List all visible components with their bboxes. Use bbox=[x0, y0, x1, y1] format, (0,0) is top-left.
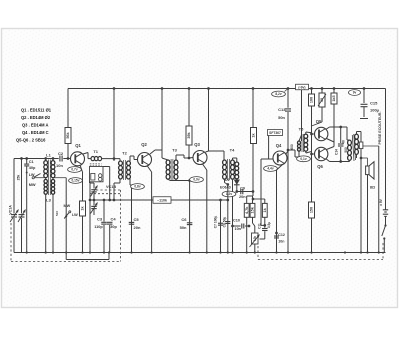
voltage oval 0.15v bbox=[69, 178, 83, 184]
svg-text:(-9v): (-9v) bbox=[298, 85, 305, 89]
svg-text:Q1: Q1 bbox=[75, 143, 81, 148]
svg-text:9v: 9v bbox=[353, 91, 357, 95]
svg-text:500: 500 bbox=[344, 147, 348, 153]
svg-text:Q6: Q6 bbox=[317, 164, 323, 169]
voltage oval 9v bbox=[349, 90, 361, 96]
svg-text:MW: MW bbox=[64, 204, 71, 208]
resistor R13 bbox=[311, 89, 313, 95]
wire T2 leads bbox=[119, 159, 121, 161]
svg-text:C3: C3 bbox=[97, 217, 103, 222]
svg-text:Q1 . ED1511 Ø1: Q1 . ED1511 Ø1 bbox=[21, 108, 52, 113]
wire bottom ground rail bbox=[14, 252, 386, 254]
svg-text:T4: T4 bbox=[230, 148, 235, 153]
svg-text:C5: C5 bbox=[134, 217, 140, 222]
wire T1 to osc bbox=[89, 182, 91, 183]
svg-text:150: 150 bbox=[310, 207, 314, 213]
wire Q3 collector bbox=[206, 151, 209, 152]
svg-text:C9: C9 bbox=[240, 186, 245, 190]
svg-text:VC1B: VC1B bbox=[106, 185, 116, 189]
svg-text:C10: C10 bbox=[233, 219, 240, 223]
svg-text:EO6AD: EO6AD bbox=[220, 185, 232, 189]
svg-text:110p: 110p bbox=[94, 225, 103, 229]
transistor type list bbox=[16, 108, 52, 143]
wire rail drop x208 bbox=[208, 89, 210, 152]
variable capacitor VC1A bbox=[11, 214, 17, 216]
voltage oval 0.1v bbox=[297, 156, 311, 162]
resistor 25k bbox=[21, 159, 23, 214]
wire Q3 emitter bbox=[203, 164, 207, 170]
boxed -9v label bbox=[296, 84, 309, 90]
wire top supply rail bbox=[68, 88, 386, 90]
svg-text:MW: MW bbox=[29, 182, 36, 187]
svg-text:510: 510 bbox=[55, 211, 59, 216]
winding T4 secondary bbox=[235, 162, 239, 166]
resistor R9 bbox=[252, 89, 254, 128]
capacitor C9 bbox=[240, 189, 242, 195]
wire detector out bbox=[237, 191, 253, 193]
wire rail drop x288 bbox=[287, 89, 289, 108]
svg-text:T2: T2 bbox=[122, 151, 127, 156]
resistor R1 bbox=[67, 89, 69, 128]
capacitor C15 bbox=[363, 89, 365, 104]
node rail junctions bbox=[113, 87, 116, 90]
wire T4 leads bbox=[224, 179, 226, 182]
wire Q6 collector bbox=[326, 159, 330, 162]
resistor R10 bbox=[246, 196, 248, 203]
svg-text:C1: C1 bbox=[29, 159, 35, 164]
wire T6 leads bbox=[346, 137, 348, 140]
svg-text:15k: 15k bbox=[251, 206, 255, 213]
svg-text:~110k: ~110k bbox=[157, 198, 167, 202]
svg-text:SFT367: SFT367 bbox=[269, 131, 281, 135]
svg-text:Q3 . ED14M A: Q3 . ED14M A bbox=[22, 123, 49, 128]
wire Q1 emitter bbox=[80, 165, 83, 172]
earphone jack bbox=[359, 142, 363, 149]
svg-text:Q5-Q6 . 2 SB16: Q5-Q6 . 2 SB16 bbox=[16, 138, 46, 143]
wire T5 leads bbox=[301, 135, 303, 141]
svg-text:LW: LW bbox=[72, 213, 78, 217]
svg-text:C14: C14 bbox=[334, 149, 338, 155]
wire T3 leads bbox=[162, 158, 168, 160]
voltage oval 0.9v bbox=[190, 177, 204, 183]
wire Q5 collector bbox=[326, 127, 330, 130]
voltage oval 4.4v bbox=[264, 166, 278, 172]
svg-text:25k: 25k bbox=[17, 175, 21, 181]
svg-text:L1: L1 bbox=[46, 153, 51, 158]
wire Q2 collector bbox=[150, 150, 155, 154]
svg-text:40: 40 bbox=[342, 140, 346, 144]
wire antenna coil leads bbox=[45, 159, 47, 161]
svg-text:600: 600 bbox=[290, 144, 294, 150]
svg-text:0,8v: 0,8v bbox=[134, 185, 140, 189]
resistor R15 bbox=[333, 89, 335, 94]
svg-text:0,7v: 0,7v bbox=[71, 168, 77, 172]
voltage oval 8.2v bbox=[272, 91, 286, 97]
svg-text:C4: C4 bbox=[110, 217, 116, 222]
svg-text:VC1A: VC1A bbox=[9, 205, 13, 215]
wire right edge drop bbox=[385, 89, 387, 207]
resistor R12 bbox=[264, 199, 266, 203]
svg-text:40p: 40p bbox=[29, 165, 36, 170]
svg-text:1k5: 1k5 bbox=[332, 95, 336, 101]
voltage oval 0.7v bbox=[68, 167, 82, 173]
inductor L2 L3 bbox=[44, 179, 47, 183]
svg-text:0,1v: 0,1v bbox=[300, 157, 306, 161]
svg-text:Q2: Q2 bbox=[141, 142, 147, 147]
AGC line bbox=[90, 199, 228, 201]
svg-text:Q4: Q4 bbox=[276, 143, 282, 148]
transistor Q4 type box bbox=[268, 130, 283, 136]
wire Q4 emitter bbox=[277, 165, 283, 171]
wire jack column bbox=[378, 146, 380, 253]
svg-text:C6: C6 bbox=[181, 217, 187, 222]
svg-text:Q4 . ED14M C: Q4 . ED14M C bbox=[22, 130, 49, 135]
capacitor C7 bbox=[220, 200, 222, 253]
wire Q1 collector to T1 bbox=[83, 153, 88, 155]
svg-text:0,15v: 0,15v bbox=[72, 179, 80, 183]
wire VC1A left column bbox=[13, 159, 15, 214]
wire Q4 base bbox=[261, 158, 273, 160]
svg-text:T1: T1 bbox=[93, 149, 98, 154]
switch power bbox=[384, 224, 386, 226]
svg-text:D1: D1 bbox=[225, 178, 230, 182]
svg-text:Q3: Q3 bbox=[194, 142, 200, 147]
svg-text:8,2v: 8,2v bbox=[275, 92, 281, 96]
wire Q2 emitter bbox=[147, 166, 152, 173]
capacitor C8 bbox=[227, 185, 229, 253]
svg-text:50n: 50n bbox=[278, 115, 285, 120]
svg-text:C15: C15 bbox=[370, 101, 378, 106]
wire switch column bbox=[89, 179, 91, 253]
resistor R16 bbox=[309, 202, 315, 218]
wire antenna input bbox=[14, 158, 59, 160]
dashed gang box bbox=[10, 223, 12, 262]
svg-text:PRISE ECOUTEUR.: PRISE ECOUTEUR. bbox=[378, 112, 382, 145]
wire rail drop x162 bbox=[161, 89, 163, 159]
wire Q4 collector to T5 bbox=[286, 151, 289, 155]
svg-text:8Ω: 8Ω bbox=[370, 186, 375, 190]
wire Q2 base bbox=[133, 156, 135, 160]
svg-text:20n: 20n bbox=[134, 225, 141, 230]
svg-text:10n: 10n bbox=[56, 163, 63, 168]
potentiometer volume 10k bbox=[252, 233, 259, 244]
svg-text:C2: C2 bbox=[58, 151, 64, 156]
voltage oval 1.2v bbox=[222, 191, 236, 197]
svg-text:L3: L3 bbox=[46, 198, 51, 203]
svg-text:0,5µ: 0,5µ bbox=[267, 222, 271, 228]
svg-text:0,9v: 0,9v bbox=[193, 178, 199, 182]
svg-text:± 9V: ± 9V bbox=[379, 198, 383, 206]
svg-text:C12: C12 bbox=[278, 233, 285, 237]
variable capacitor VC1A trimmer bbox=[19, 214, 25, 216]
transformer T6 bbox=[348, 140, 352, 145]
svg-text:20n: 20n bbox=[239, 195, 246, 199]
svg-text:Q2 . ED14M Ø2: Q2 . ED14M Ø2 bbox=[21, 115, 51, 120]
capacitor C6 bbox=[176, 180, 190, 182]
svg-text:100: 100 bbox=[310, 97, 314, 103]
svg-text:30p: 30p bbox=[110, 225, 117, 229]
svg-text:4,7k: 4,7k bbox=[245, 206, 249, 214]
svg-text:T3: T3 bbox=[172, 148, 177, 153]
resistor R11 bbox=[252, 196, 254, 203]
svg-text:4,4v: 4,4v bbox=[267, 167, 273, 171]
resistor R3 emitter bbox=[80, 201, 86, 216]
svg-text:10n: 10n bbox=[278, 240, 284, 244]
node bottom rail junctions bbox=[26, 251, 28, 253]
wire base column bbox=[310, 133, 313, 136]
svg-text:1,2v: 1,2v bbox=[226, 192, 232, 196]
svg-text:50n: 50n bbox=[180, 225, 187, 230]
svg-text:Q5: Q5 bbox=[316, 119, 322, 124]
svg-text:39k: 39k bbox=[187, 131, 191, 138]
wire rail drop x301 to T5 bbox=[301, 89, 303, 136]
svg-text:C7 100µ: C7 100µ bbox=[214, 216, 218, 229]
wire speaker leads bbox=[367, 175, 369, 253]
wire Q5 Q6 emitters bbox=[327, 139, 335, 143]
wire rail drop x114 bbox=[113, 89, 115, 162]
svg-text:56k: 56k bbox=[66, 131, 70, 138]
resistor R14 thermistor bbox=[321, 89, 323, 94]
dashed link volume to switch bbox=[382, 243, 384, 260]
svg-text:10n: 10n bbox=[234, 227, 241, 231]
resistor R5 bbox=[188, 89, 190, 127]
svg-text:LW: LW bbox=[29, 172, 35, 177]
voltage oval 0.8v bbox=[131, 185, 133, 253]
loudspeaker bbox=[366, 166, 369, 175]
svg-text:T5: T5 bbox=[299, 127, 304, 132]
wire VC1A trim column bbox=[21, 218, 23, 253]
